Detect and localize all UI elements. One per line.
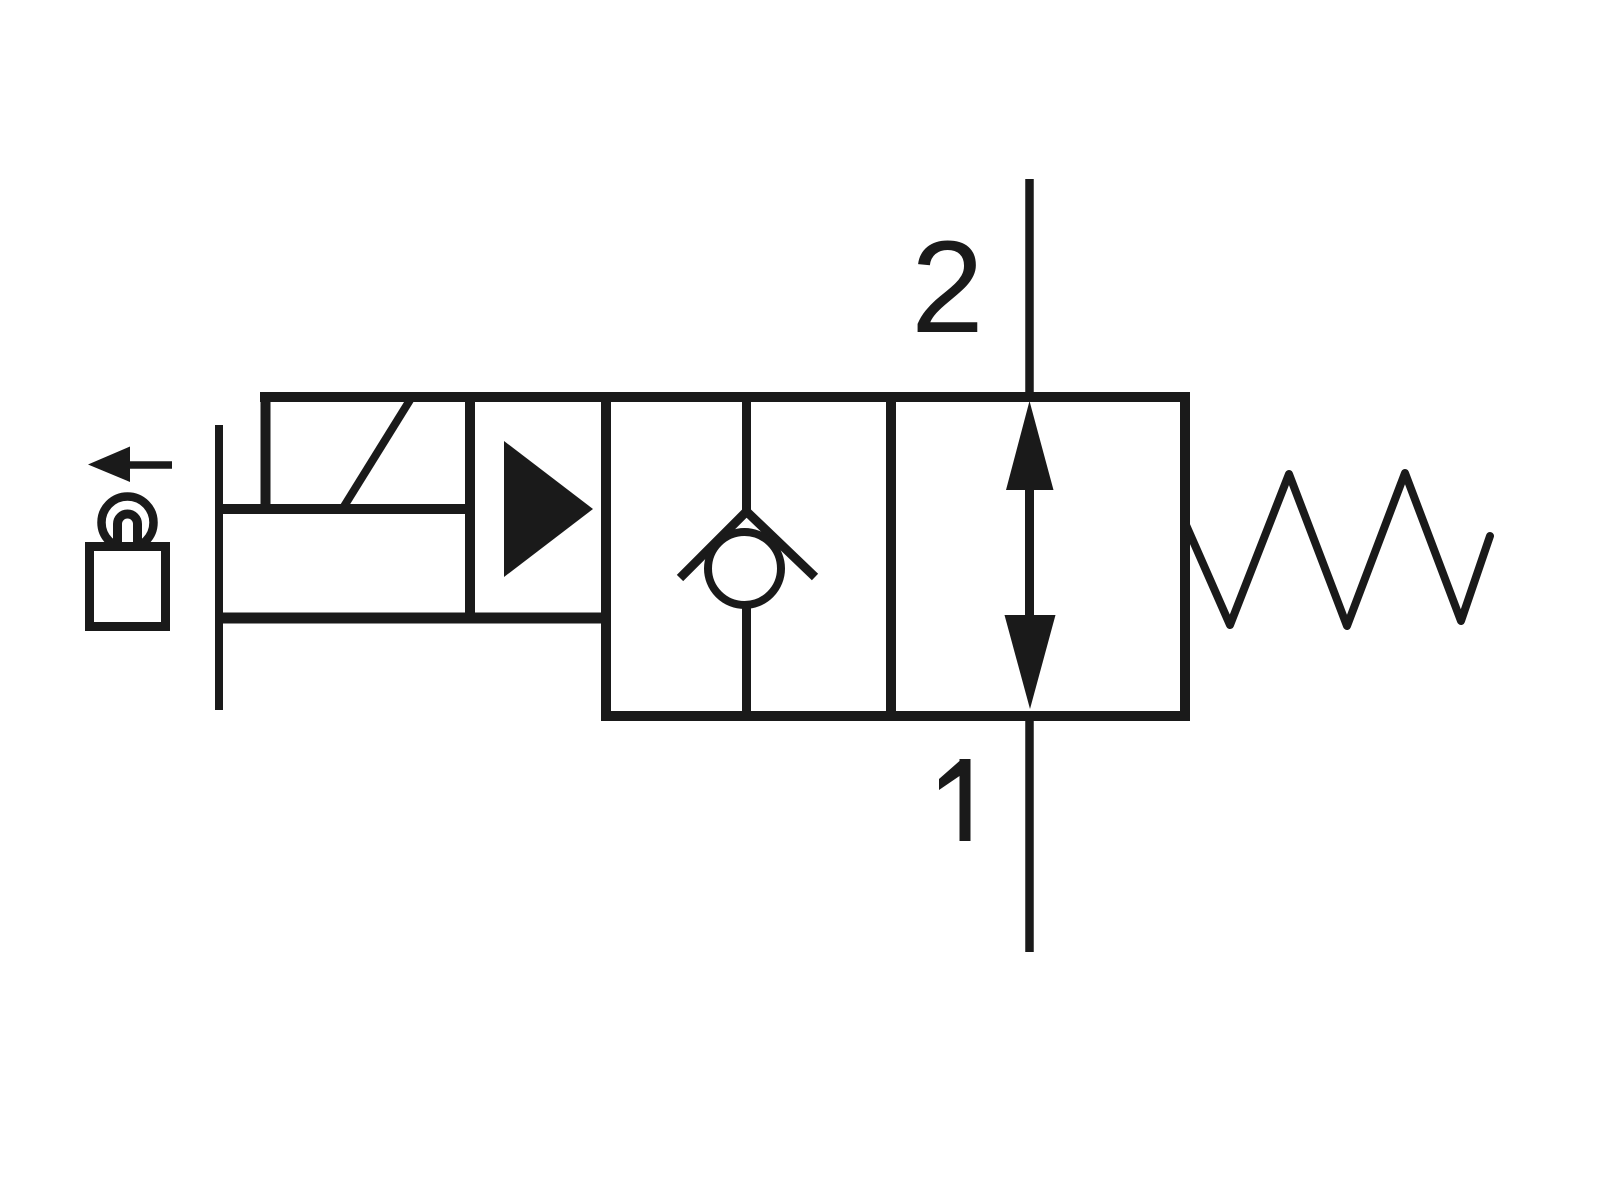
solenoid box left wall xyxy=(261,392,271,514)
check valve lower line xyxy=(742,604,751,716)
manual override arrowhead xyxy=(88,447,130,483)
middle / right box divider wall xyxy=(886,397,896,716)
flow path middle line xyxy=(1025,485,1034,620)
port label 1 xyxy=(939,759,971,841)
check valve seat left arm xyxy=(680,510,748,578)
padlock shackle inner arch xyxy=(118,514,138,546)
solenoid diagonal armature xyxy=(343,400,410,508)
wire top edge of valve body xyxy=(260,392,1190,402)
solenoid box bottom wire xyxy=(215,504,475,514)
padlock body xyxy=(90,547,166,627)
pilot vertical line xyxy=(215,425,223,710)
solenoid / pilot box divider wall xyxy=(465,392,475,623)
port 2 line xyxy=(1025,179,1034,397)
middle box left wall xyxy=(601,392,611,721)
manual override arrow tail xyxy=(127,461,172,469)
right box right wall xyxy=(1180,392,1190,721)
svg-text:2: 2 xyxy=(911,213,984,360)
padlock shackle outer ring xyxy=(102,497,154,549)
flow path down arrowhead xyxy=(1005,615,1056,709)
spring xyxy=(1186,473,1490,626)
check valve seat right arm xyxy=(745,510,815,577)
bottom edge of valve body xyxy=(601,711,1190,721)
left section bottom wire xyxy=(215,613,611,624)
port 1 line xyxy=(1025,716,1034,952)
pilot flow triangle xyxy=(504,441,593,577)
flow path up arrowhead xyxy=(1006,401,1054,490)
check valve ball circle xyxy=(708,532,781,605)
check valve upper line xyxy=(742,397,751,513)
